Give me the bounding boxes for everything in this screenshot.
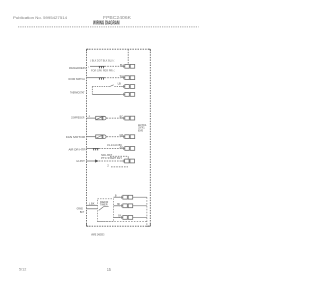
svg-text:AC: AC bbox=[120, 145, 123, 149]
svg-text:(: ( bbox=[88, 66, 89, 68]
svg-text:Publication No. 5995427514: Publication No. 5995427514 bbox=[13, 15, 68, 20]
svg-text:WH: WH bbox=[120, 74, 124, 78]
svg-text:LB: LB bbox=[118, 82, 121, 86]
svg-text:COMPRESSOR: COMPRESSOR bbox=[71, 116, 85, 120]
svg-text:2: 2 bbox=[107, 164, 109, 168]
svg-text:TIMER: TIMER bbox=[100, 203, 108, 207]
svg-text:BKT: BKT bbox=[80, 210, 85, 214]
svg-text:B: B bbox=[115, 194, 117, 198]
svg-text:BC: BC bbox=[120, 115, 123, 119]
svg-text:DOOR SWITCH: DOOR SWITCH bbox=[69, 77, 85, 81]
svg-text:MAIN/HARNESS: MAIN/HARNESS bbox=[69, 66, 86, 70]
svg-text:HI-POT: HI-POT bbox=[77, 159, 85, 163]
svg-text:FPBC2406K: FPBC2406K bbox=[103, 15, 131, 20]
svg-text:15: 15 bbox=[107, 267, 112, 272]
svg-text:FOR SPK PER PRI (: FOR SPK PER PRI ( bbox=[91, 68, 115, 72]
svg-text:THERMOSTAT: THERMOSTAT bbox=[70, 91, 85, 95]
svg-text:BOARD: BOARD bbox=[138, 130, 143, 133]
svg-text:WIRING DIAGRAM: WIRING DIAGRAM bbox=[93, 20, 120, 26]
svg-text:MA: MA bbox=[120, 133, 124, 137]
svg-text:BK: BK bbox=[118, 214, 121, 217]
svg-text:WIRE 2403933: WIRE 2403933 bbox=[91, 232, 104, 236]
svg-text:PTC START RLY: PTC START RLY bbox=[101, 156, 122, 160]
svg-text:AIR DR HTR: AIR DR HTR bbox=[69, 148, 87, 152]
svg-text:BU: BU bbox=[120, 63, 123, 67]
svg-text:( BLK DOT BLK BLU (: ( BLK DOT BLK BLU ( bbox=[90, 59, 114, 63]
svg-text:L BK: L BK bbox=[89, 203, 95, 206]
svg-text:5/12: 5/12 bbox=[19, 267, 26, 271]
svg-text:FAN MOTOR: FAN MOTOR bbox=[66, 135, 86, 139]
